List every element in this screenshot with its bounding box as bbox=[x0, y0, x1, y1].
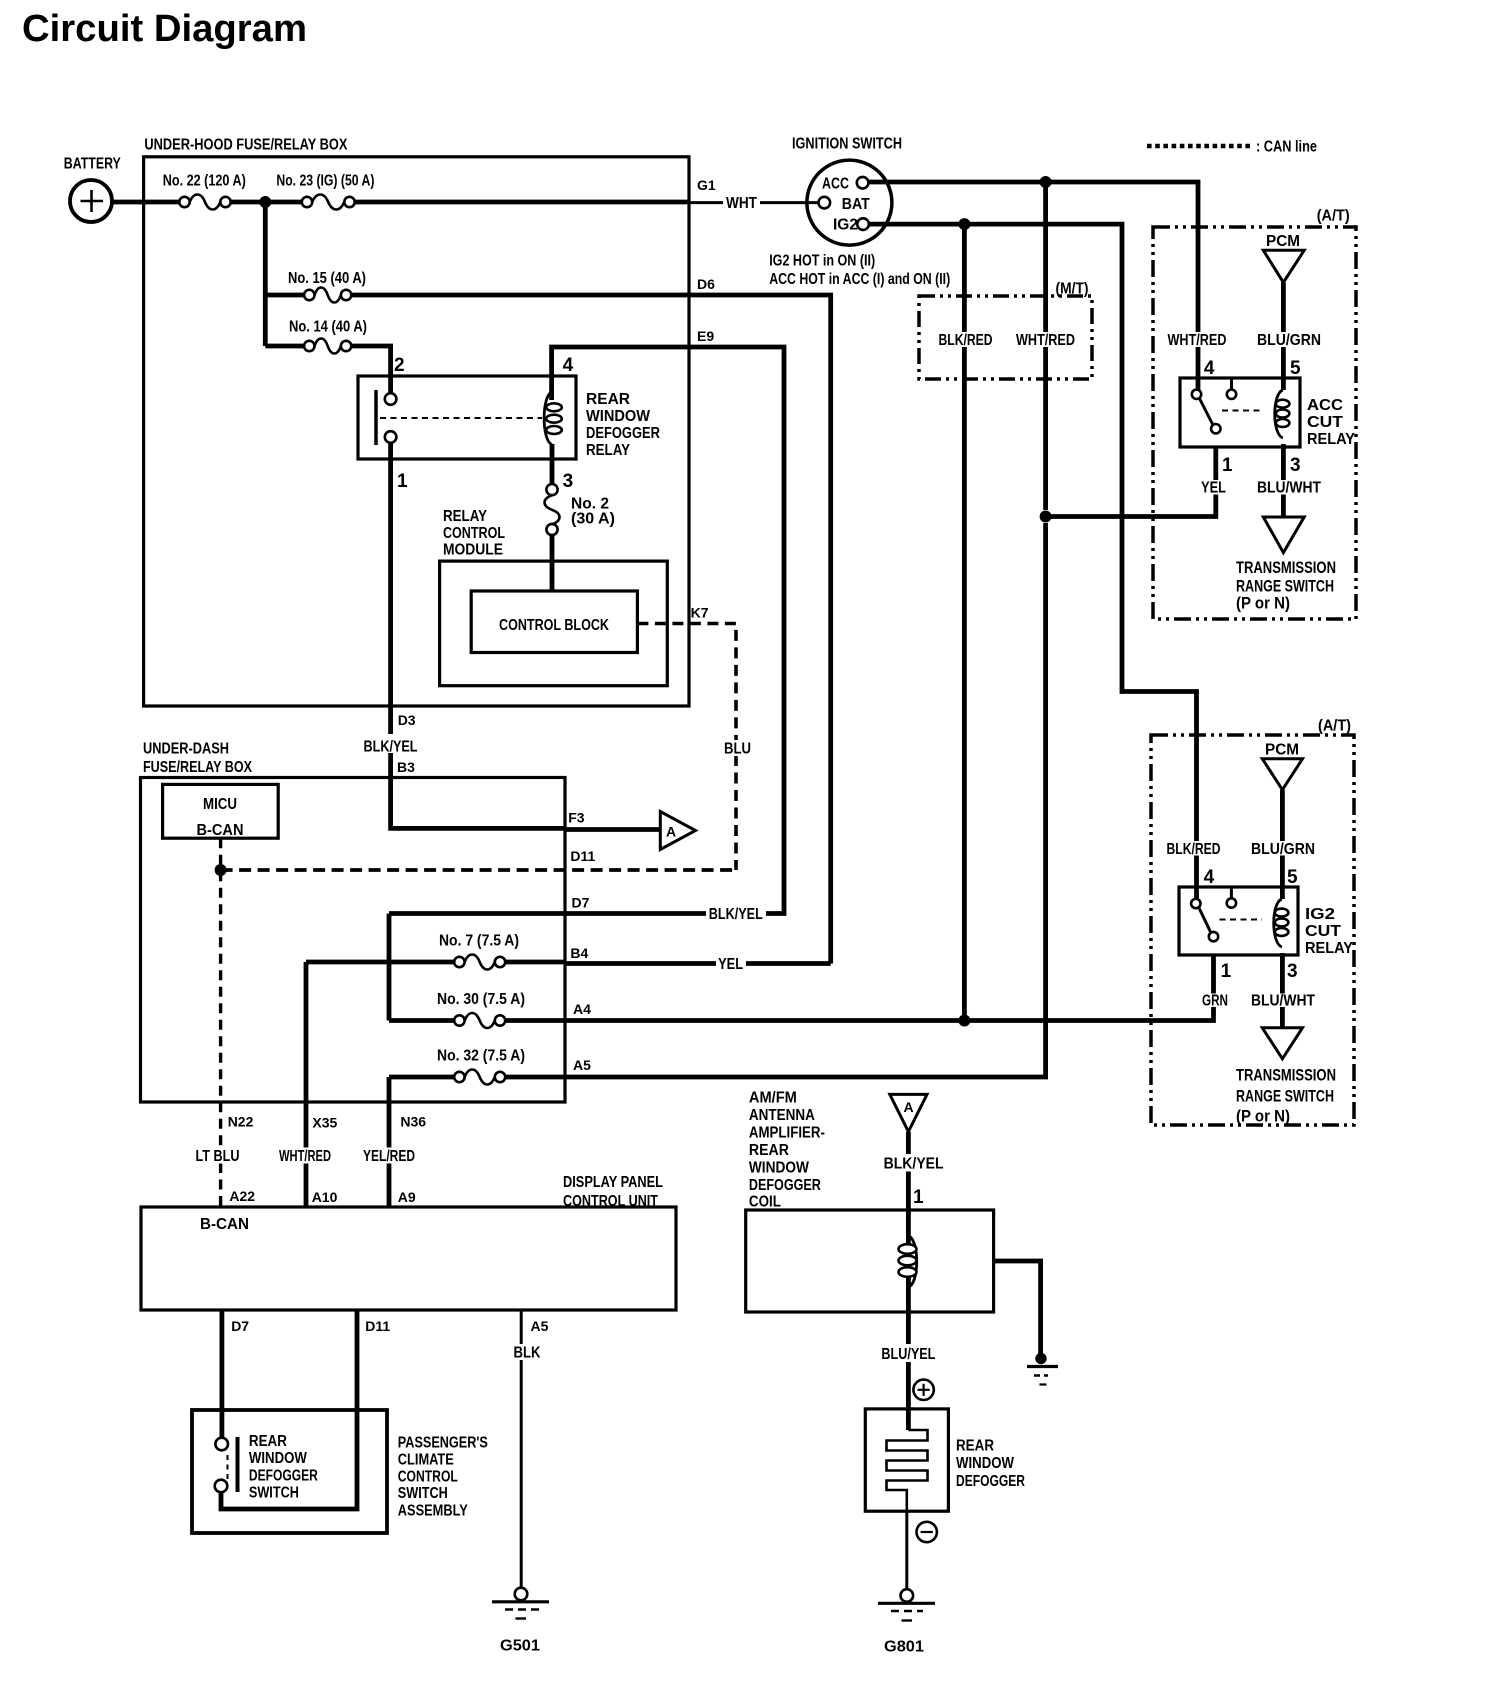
svg-text:RELAY: RELAY bbox=[1307, 431, 1356, 448]
wire label BLU/GRN (ACC cut relay) bbox=[1257, 332, 1321, 349]
svg-text:4: 4 bbox=[1204, 358, 1215, 379]
fuse No.2 (30 A) vertical bbox=[545, 484, 616, 535]
svg-text:CONTROL UNIT: CONTROL UNIT bbox=[563, 1193, 658, 1210]
svg-text:D11: D11 bbox=[365, 1318, 390, 1334]
svg-text:D11: D11 bbox=[570, 848, 595, 864]
svg-text:F3: F3 bbox=[568, 810, 585, 826]
node: YEL junction bbox=[1040, 511, 1052, 523]
svg-text:3: 3 bbox=[1290, 455, 1301, 476]
svg-text:ANTENNA: ANTENNA bbox=[749, 1107, 815, 1124]
svg-text:BAT: BAT bbox=[842, 196, 870, 213]
svg-text:(M/T): (M/T) bbox=[1056, 281, 1089, 298]
svg-text:SWITCH: SWITCH bbox=[398, 1485, 448, 1502]
wire: fuse15 leads and D6 run to B4 corner bbox=[265, 295, 830, 964]
svg-text:REAR: REAR bbox=[586, 391, 630, 408]
svg-text:No. 7 (7.5 A): No. 7 (7.5 A) bbox=[439, 933, 519, 950]
wire: relay pin 4 up to E9 line, down to D7 bbox=[552, 347, 784, 914]
minus terminal bbox=[917, 1522, 937, 1542]
svg-text:WHT: WHT bbox=[726, 195, 757, 212]
ACC cut relay coil bbox=[1275, 390, 1290, 438]
svg-text:D6: D6 bbox=[697, 276, 715, 292]
under-hood fuse/relay box bbox=[144, 137, 689, 706]
svg-text:BLU/WHT: BLU/WHT bbox=[1257, 480, 1321, 497]
svg-text:REAR: REAR bbox=[956, 1438, 994, 1455]
svg-text:N22: N22 bbox=[228, 1114, 254, 1130]
svg-text:B4: B4 bbox=[570, 945, 588, 961]
svg-text:B-CAN: B-CAN bbox=[200, 1216, 249, 1233]
M/T dashed box bbox=[919, 281, 1092, 380]
passenger's climate control switch assembly box bbox=[192, 1410, 488, 1533]
wire: display A5 BLK down to G501 bbox=[520, 1310, 523, 1588]
fuse No.30 (7.5 A) bbox=[437, 991, 525, 1028]
wire label WHT/RED (X35) bbox=[277, 1148, 333, 1166]
svg-text:B3: B3 bbox=[397, 759, 415, 775]
node: IG2 junction bbox=[958, 218, 970, 230]
AM/FM antenna amplifier coil box bbox=[746, 1090, 994, 1313]
wire: coil box right side to ground bbox=[994, 1261, 1041, 1355]
wire: control block dashed K7 BLU line bbox=[637, 624, 736, 871]
wire: battery to fuse 22 bbox=[111, 200, 179, 205]
svg-text:ACC: ACC bbox=[822, 175, 849, 192]
fuse No.14 (40 A) bbox=[289, 319, 367, 354]
wire label WHT bbox=[723, 194, 760, 212]
svg-text:YEL/RED: YEL/RED bbox=[363, 1148, 415, 1165]
svg-text:B-CAN: B-CAN bbox=[197, 822, 244, 839]
svg-text:1: 1 bbox=[1221, 961, 1232, 982]
svg-text:4: 4 bbox=[563, 355, 574, 376]
MICU B-CAN box bbox=[163, 784, 279, 839]
wire label YEL (ACC cut relay pin1) bbox=[1201, 480, 1226, 497]
wire: F3 extension to arrow A bbox=[565, 827, 659, 832]
svg-text:SWITCH: SWITCH bbox=[249, 1485, 299, 1502]
svg-text:(P or N): (P or N) bbox=[1236, 594, 1290, 613]
svg-text:DEFOGGER: DEFOGGER bbox=[249, 1468, 318, 1485]
svg-text:A5: A5 bbox=[531, 1318, 549, 1334]
svg-text:No. 15 (40 A): No. 15 (40 A) bbox=[288, 270, 366, 287]
antenna triangle A bbox=[890, 1094, 927, 1131]
svg-text:No. 22 (120 A): No. 22 (120 A) bbox=[163, 172, 246, 189]
svg-text:UNDER-HOOD FUSE/RELAY BOX: UNDER-HOOD FUSE/RELAY BOX bbox=[144, 137, 348, 154]
svg-text:AMPLIFIER-: AMPLIFIER- bbox=[749, 1125, 825, 1142]
svg-text:No. 32 (7.5 A): No. 32 (7.5 A) bbox=[437, 1048, 525, 1065]
svg-text:BLU/WHT: BLU/WHT bbox=[1251, 993, 1315, 1010]
svg-text:IG2: IG2 bbox=[1305, 906, 1335, 923]
svg-text:AM/FM: AM/FM bbox=[749, 1090, 797, 1107]
wire label WHT/RED (ACC cut relay) bbox=[1168, 332, 1227, 349]
relay contact switch (under-hood relay) bbox=[376, 390, 542, 445]
svg-text:TRANSMISSION: TRANSMISSION bbox=[1236, 558, 1336, 577]
svg-text:BLK/YEL: BLK/YEL bbox=[884, 1156, 944, 1173]
control block box bbox=[471, 591, 637, 653]
svg-text:WINDOW: WINDOW bbox=[586, 408, 650, 425]
svg-text:BLK: BLK bbox=[514, 1345, 542, 1362]
svg-text:BLK/YEL: BLK/YEL bbox=[709, 906, 763, 923]
wire label BLK (A5) bbox=[508, 1344, 546, 1362]
svg-text:(30 A): (30 A) bbox=[571, 511, 615, 528]
svg-text:WINDOW: WINDOW bbox=[956, 1455, 1014, 1472]
svg-text:ACC: ACC bbox=[1307, 397, 1343, 414]
fuse No.23 (IG) (50 A) bbox=[276, 172, 374, 209]
svg-text:IGNITION SWITCH: IGNITION SWITCH bbox=[792, 136, 902, 153]
svg-text:CONTROL: CONTROL bbox=[443, 525, 505, 542]
svg-text:1: 1 bbox=[1222, 455, 1233, 476]
svg-text:IG2 HOT in ON (II): IG2 HOT in ON (II) bbox=[769, 253, 875, 270]
svg-text:4: 4 bbox=[1204, 867, 1215, 888]
defogger switch contacts bbox=[215, 1433, 318, 1502]
svg-text:: CAN line: : CAN line bbox=[1256, 139, 1317, 156]
wire: ACC line to ACC cut relay pin 4 bbox=[868, 182, 1198, 394]
svg-text:BLK/RED: BLK/RED bbox=[1167, 841, 1221, 858]
rear window defogger element bbox=[887, 1430, 928, 1511]
svg-text:UNDER-DASH: UNDER-DASH bbox=[143, 741, 229, 758]
svg-text:G1: G1 bbox=[697, 177, 716, 193]
svg-text:ASSEMBLY: ASSEMBLY bbox=[398, 1503, 469, 1520]
wire label YEL (B4) bbox=[716, 956, 746, 974]
wire: fuse14 leads to relay pin 2 bbox=[265, 346, 390, 399]
wire label BLK/YEL (antenna) bbox=[880, 1154, 946, 1173]
PCM triangle (A/T box 1) bbox=[1263, 233, 1304, 282]
wire label BLU/WHT (IG2 cut relay pin3) bbox=[1251, 993, 1315, 1010]
svg-text:A4: A4 bbox=[573, 1001, 591, 1017]
svg-text:A22: A22 bbox=[229, 1188, 255, 1204]
wire label BLU/WHT (ACC cut relay pin3) bbox=[1257, 480, 1321, 497]
svg-text:K7: K7 bbox=[691, 605, 709, 621]
svg-text:MICU: MICU bbox=[203, 796, 237, 813]
ignition switch bbox=[769, 136, 950, 289]
wire label BLK/RED (IG2 cut relay) bbox=[1167, 841, 1221, 858]
svg-text:CONTROL: CONTROL bbox=[398, 1469, 458, 1486]
svg-text:CONTROL BLOCK: CONTROL BLOCK bbox=[499, 617, 610, 634]
svg-text:WHT/RED: WHT/RED bbox=[1016, 332, 1075, 349]
svg-text:3: 3 bbox=[563, 471, 574, 492]
svg-text:D7: D7 bbox=[572, 895, 590, 911]
pin labels IG2 cut relay bbox=[1204, 867, 1298, 982]
svg-text:D3: D3 bbox=[398, 712, 416, 728]
svg-text:CLIMATE: CLIMATE bbox=[398, 1452, 454, 1469]
antenna coil bbox=[899, 1236, 917, 1287]
wire label YEL/RED (N36) bbox=[361, 1148, 417, 1166]
fuse No.22 (120 A) bbox=[163, 172, 246, 209]
pin labels ACC cut relay bbox=[1204, 358, 1301, 476]
PCM triangle (A/T box 2) bbox=[1262, 742, 1302, 790]
svg-text:DEFOGGER: DEFOGGER bbox=[749, 1177, 821, 1194]
svg-text:CUT: CUT bbox=[1305, 923, 1342, 940]
svg-text:REAR: REAR bbox=[749, 1142, 789, 1159]
relay control module box bbox=[440, 508, 668, 686]
svg-text:BLK/YEL: BLK/YEL bbox=[364, 739, 418, 756]
wire label BLU/GRN (IG2 cut relay) bbox=[1251, 841, 1315, 858]
svg-text:BLU: BLU bbox=[724, 741, 751, 758]
svg-text:(P or N): (P or N) bbox=[1236, 1107, 1290, 1126]
svg-text:D7: D7 bbox=[231, 1318, 249, 1334]
wire: ACC cut relay pin 5 BLU/GRN to PCM bbox=[1281, 282, 1286, 390]
svg-text:No. 14 (40 A): No. 14 (40 A) bbox=[289, 319, 367, 336]
svg-text:REAR: REAR bbox=[249, 1433, 287, 1450]
svg-text:DEFOGGER: DEFOGGER bbox=[956, 1473, 1025, 1490]
wire label LT BLU bbox=[194, 1148, 242, 1166]
wire: A5 extension up WHT/RED vertical to ACC bbox=[565, 182, 1046, 1077]
wire: BLK/RED vertical from IG2 to A4 bbox=[962, 224, 967, 1020]
A/T dashed box 1 (ACC cut relay) bbox=[1153, 208, 1356, 620]
svg-text:3: 3 bbox=[1287, 961, 1298, 982]
svg-text:A: A bbox=[904, 1099, 914, 1115]
svg-text:ACC HOT in ACC (I) and ON (II): ACC HOT in ACC (I) and ON (II) bbox=[769, 271, 950, 288]
display panel control unit box bbox=[141, 1174, 676, 1310]
svg-text:GRN: GRN bbox=[1202, 993, 1228, 1010]
wire: display D7 down to defogger switch bbox=[219, 1310, 224, 1438]
ACC cut relay box bbox=[1180, 378, 1356, 448]
wire label BLK/RED (M/T) bbox=[939, 332, 993, 349]
svg-text:Circuit Diagram: Circuit Diagram bbox=[22, 8, 307, 50]
A/T dashed box 2 (IG2 cut relay) bbox=[1151, 718, 1354, 1126]
node: battery feed junction bbox=[259, 196, 271, 208]
svg-text:RELAY: RELAY bbox=[443, 508, 488, 525]
fuse No.32 (7.5 A) bbox=[437, 1048, 525, 1085]
svg-text:G501: G501 bbox=[500, 1638, 540, 1655]
wire label GRN (IG2 cut relay pin1) bbox=[1202, 993, 1228, 1010]
wire: A5 fuse No.32 row and N36 vertical bbox=[389, 1077, 565, 1207]
relay coil (under-hood relay) bbox=[544, 392, 562, 445]
wire: junction down to fuse rows bbox=[263, 202, 268, 346]
svg-text:PASSENGER'S: PASSENGER'S bbox=[398, 1435, 488, 1452]
arrow A (F3) bbox=[660, 812, 695, 850]
svg-text:1: 1 bbox=[397, 471, 408, 492]
svg-text:FUSE/RELAY BOX: FUSE/RELAY BOX bbox=[143, 759, 253, 776]
plus terminal bbox=[913, 1380, 933, 1400]
wire: relay pin 3 through fuse No.2 to control block bbox=[550, 444, 555, 591]
svg-text:RELAY: RELAY bbox=[586, 442, 631, 459]
ground at coil box (filled dot) bbox=[1027, 1353, 1058, 1385]
svg-text:WHT/RED: WHT/RED bbox=[279, 1148, 331, 1165]
svg-text:CUT: CUT bbox=[1307, 414, 1344, 431]
ground G501 bbox=[492, 1588, 549, 1655]
svg-text:MODULE: MODULE bbox=[443, 542, 503, 559]
svg-text:RELAY: RELAY bbox=[1305, 940, 1354, 957]
wire: defogger switch to D11 up to display bbox=[221, 1310, 357, 1509]
wire: defogger bottom to G801 bbox=[905, 1511, 908, 1590]
svg-text:1: 1 bbox=[913, 1187, 924, 1208]
svg-text:TRANSMISSION: TRANSMISSION bbox=[1236, 1066, 1336, 1085]
under-dash fuse/relay box bbox=[141, 741, 566, 1103]
wire: IG2 cut relay pin 3 BLU/WHT to transmission range switch bbox=[1280, 953, 1285, 1028]
node: A4 BLK/RED junction bbox=[958, 1015, 970, 1027]
svg-text:No. 30 (7.5 A): No. 30 (7.5 A) bbox=[437, 991, 525, 1008]
svg-text:COIL: COIL bbox=[749, 1194, 781, 1211]
IG2 cut relay box bbox=[1179, 887, 1354, 957]
svg-text:A9: A9 bbox=[398, 1189, 416, 1205]
wire: B4 fuse No.7 row and X35 vertical bbox=[306, 962, 831, 1207]
IG2 cut relay contacts bbox=[1191, 887, 1262, 941]
wire: relay pin 1 down D3 B3 to F3 line bbox=[391, 437, 565, 828]
svg-text:BLU/YEL: BLU/YEL bbox=[881, 1346, 935, 1363]
wire: YEL line ACC cut relay pin 1 bbox=[1046, 447, 1216, 517]
wire: IG2 line right and down to IG2 cut relay pin 4 bbox=[868, 224, 1197, 903]
wire: CAN line legend bbox=[1147, 139, 1317, 156]
wire: IG2 cut relay pin 5 BLU/GRN to PCM bbox=[1280, 790, 1285, 899]
battery bbox=[64, 156, 122, 222]
svg-text:RANGE SWITCH: RANGE SWITCH bbox=[1236, 1087, 1334, 1106]
svg-text:N36: N36 bbox=[400, 1114, 426, 1130]
wire label BLU bbox=[722, 740, 753, 758]
wire: ACC cut relay pin 3 BLU/WHT to transmission range switch bbox=[1281, 444, 1286, 517]
svg-text:5: 5 bbox=[1290, 358, 1301, 379]
svg-text:DEFOGGER: DEFOGGER bbox=[586, 425, 660, 442]
svg-text:X35: X35 bbox=[312, 1115, 337, 1131]
wire: B-CAN dashed vertical N22 LT BLU A22 bbox=[219, 838, 222, 1207]
svg-text:YEL: YEL bbox=[1201, 480, 1226, 497]
svg-text:YEL: YEL bbox=[718, 956, 743, 973]
svg-text:A5: A5 bbox=[573, 1057, 591, 1073]
svg-text:DISPLAY PANEL: DISPLAY PANEL bbox=[563, 1174, 663, 1191]
node: ACC junction bbox=[1040, 176, 1052, 188]
svg-text:WINDOW: WINDOW bbox=[749, 1160, 809, 1177]
svg-text:IG2: IG2 bbox=[833, 217, 858, 234]
ground G801 bbox=[878, 1589, 935, 1655]
wire: G1 WHT to ignition BAT bbox=[689, 201, 819, 204]
fuse No.15 (40 A) bbox=[288, 270, 366, 303]
svg-text:(A/T): (A/T) bbox=[1318, 718, 1351, 735]
wire label WHT/RED (M/T) bbox=[1016, 332, 1075, 349]
svg-text:5: 5 bbox=[1287, 867, 1298, 888]
svg-text:A10: A10 bbox=[312, 1189, 338, 1205]
svg-text:BLU/GRN: BLU/GRN bbox=[1251, 841, 1315, 858]
rear window defogger box bbox=[865, 1409, 1025, 1511]
IG2 cut relay coil bbox=[1274, 899, 1289, 947]
wire: D7 vertical to A4 fuse No.30 row bbox=[389, 914, 565, 1021]
svg-text:No. 23 (IG) (50 A): No. 23 (IG) (50 A) bbox=[276, 172, 374, 189]
svg-text:WHT/RED: WHT/RED bbox=[1168, 332, 1227, 349]
transmission range switch triangle (A/T box 2) bbox=[1236, 1028, 1336, 1126]
wire: D11 dashed CAN line bbox=[221, 868, 736, 872]
wire: antenna down through coil to defogger bbox=[906, 1132, 911, 1430]
wire: A4 extension to IG2 cut relay pin 1 bbox=[565, 955, 1214, 1021]
svg-text:G801: G801 bbox=[884, 1639, 924, 1656]
svg-text:PCM: PCM bbox=[1265, 742, 1299, 759]
svg-text:(A/T): (A/T) bbox=[1317, 208, 1350, 225]
wire: fuse23 to G1 box edge bbox=[355, 200, 689, 205]
node: B-CAN junction dot bbox=[215, 864, 227, 876]
svg-text:BLK/RED: BLK/RED bbox=[939, 332, 993, 349]
svg-text:A: A bbox=[666, 824, 676, 840]
wire: fuse22 to junction to fuse23 bbox=[231, 200, 302, 205]
svg-text:LT BLU: LT BLU bbox=[196, 1148, 240, 1165]
svg-text:2: 2 bbox=[394, 355, 405, 376]
wire label BLU/YEL bbox=[879, 1345, 939, 1363]
svg-text:BATTERY: BATTERY bbox=[64, 156, 122, 173]
svg-text:WINDOW: WINDOW bbox=[249, 1450, 307, 1467]
svg-text:PCM: PCM bbox=[1266, 233, 1300, 250]
fuse No.7 (7.5 A) bbox=[439, 933, 519, 970]
ACC cut relay contacts bbox=[1192, 378, 1264, 433]
rear window defogger relay box bbox=[358, 376, 660, 459]
transmission range switch triangle (A/T box 1) bbox=[1236, 517, 1336, 613]
svg-text:BLU/GRN: BLU/GRN bbox=[1257, 332, 1321, 349]
wire label BLK/YEL (D7) bbox=[706, 905, 766, 923]
svg-text:E9: E9 bbox=[697, 328, 714, 344]
